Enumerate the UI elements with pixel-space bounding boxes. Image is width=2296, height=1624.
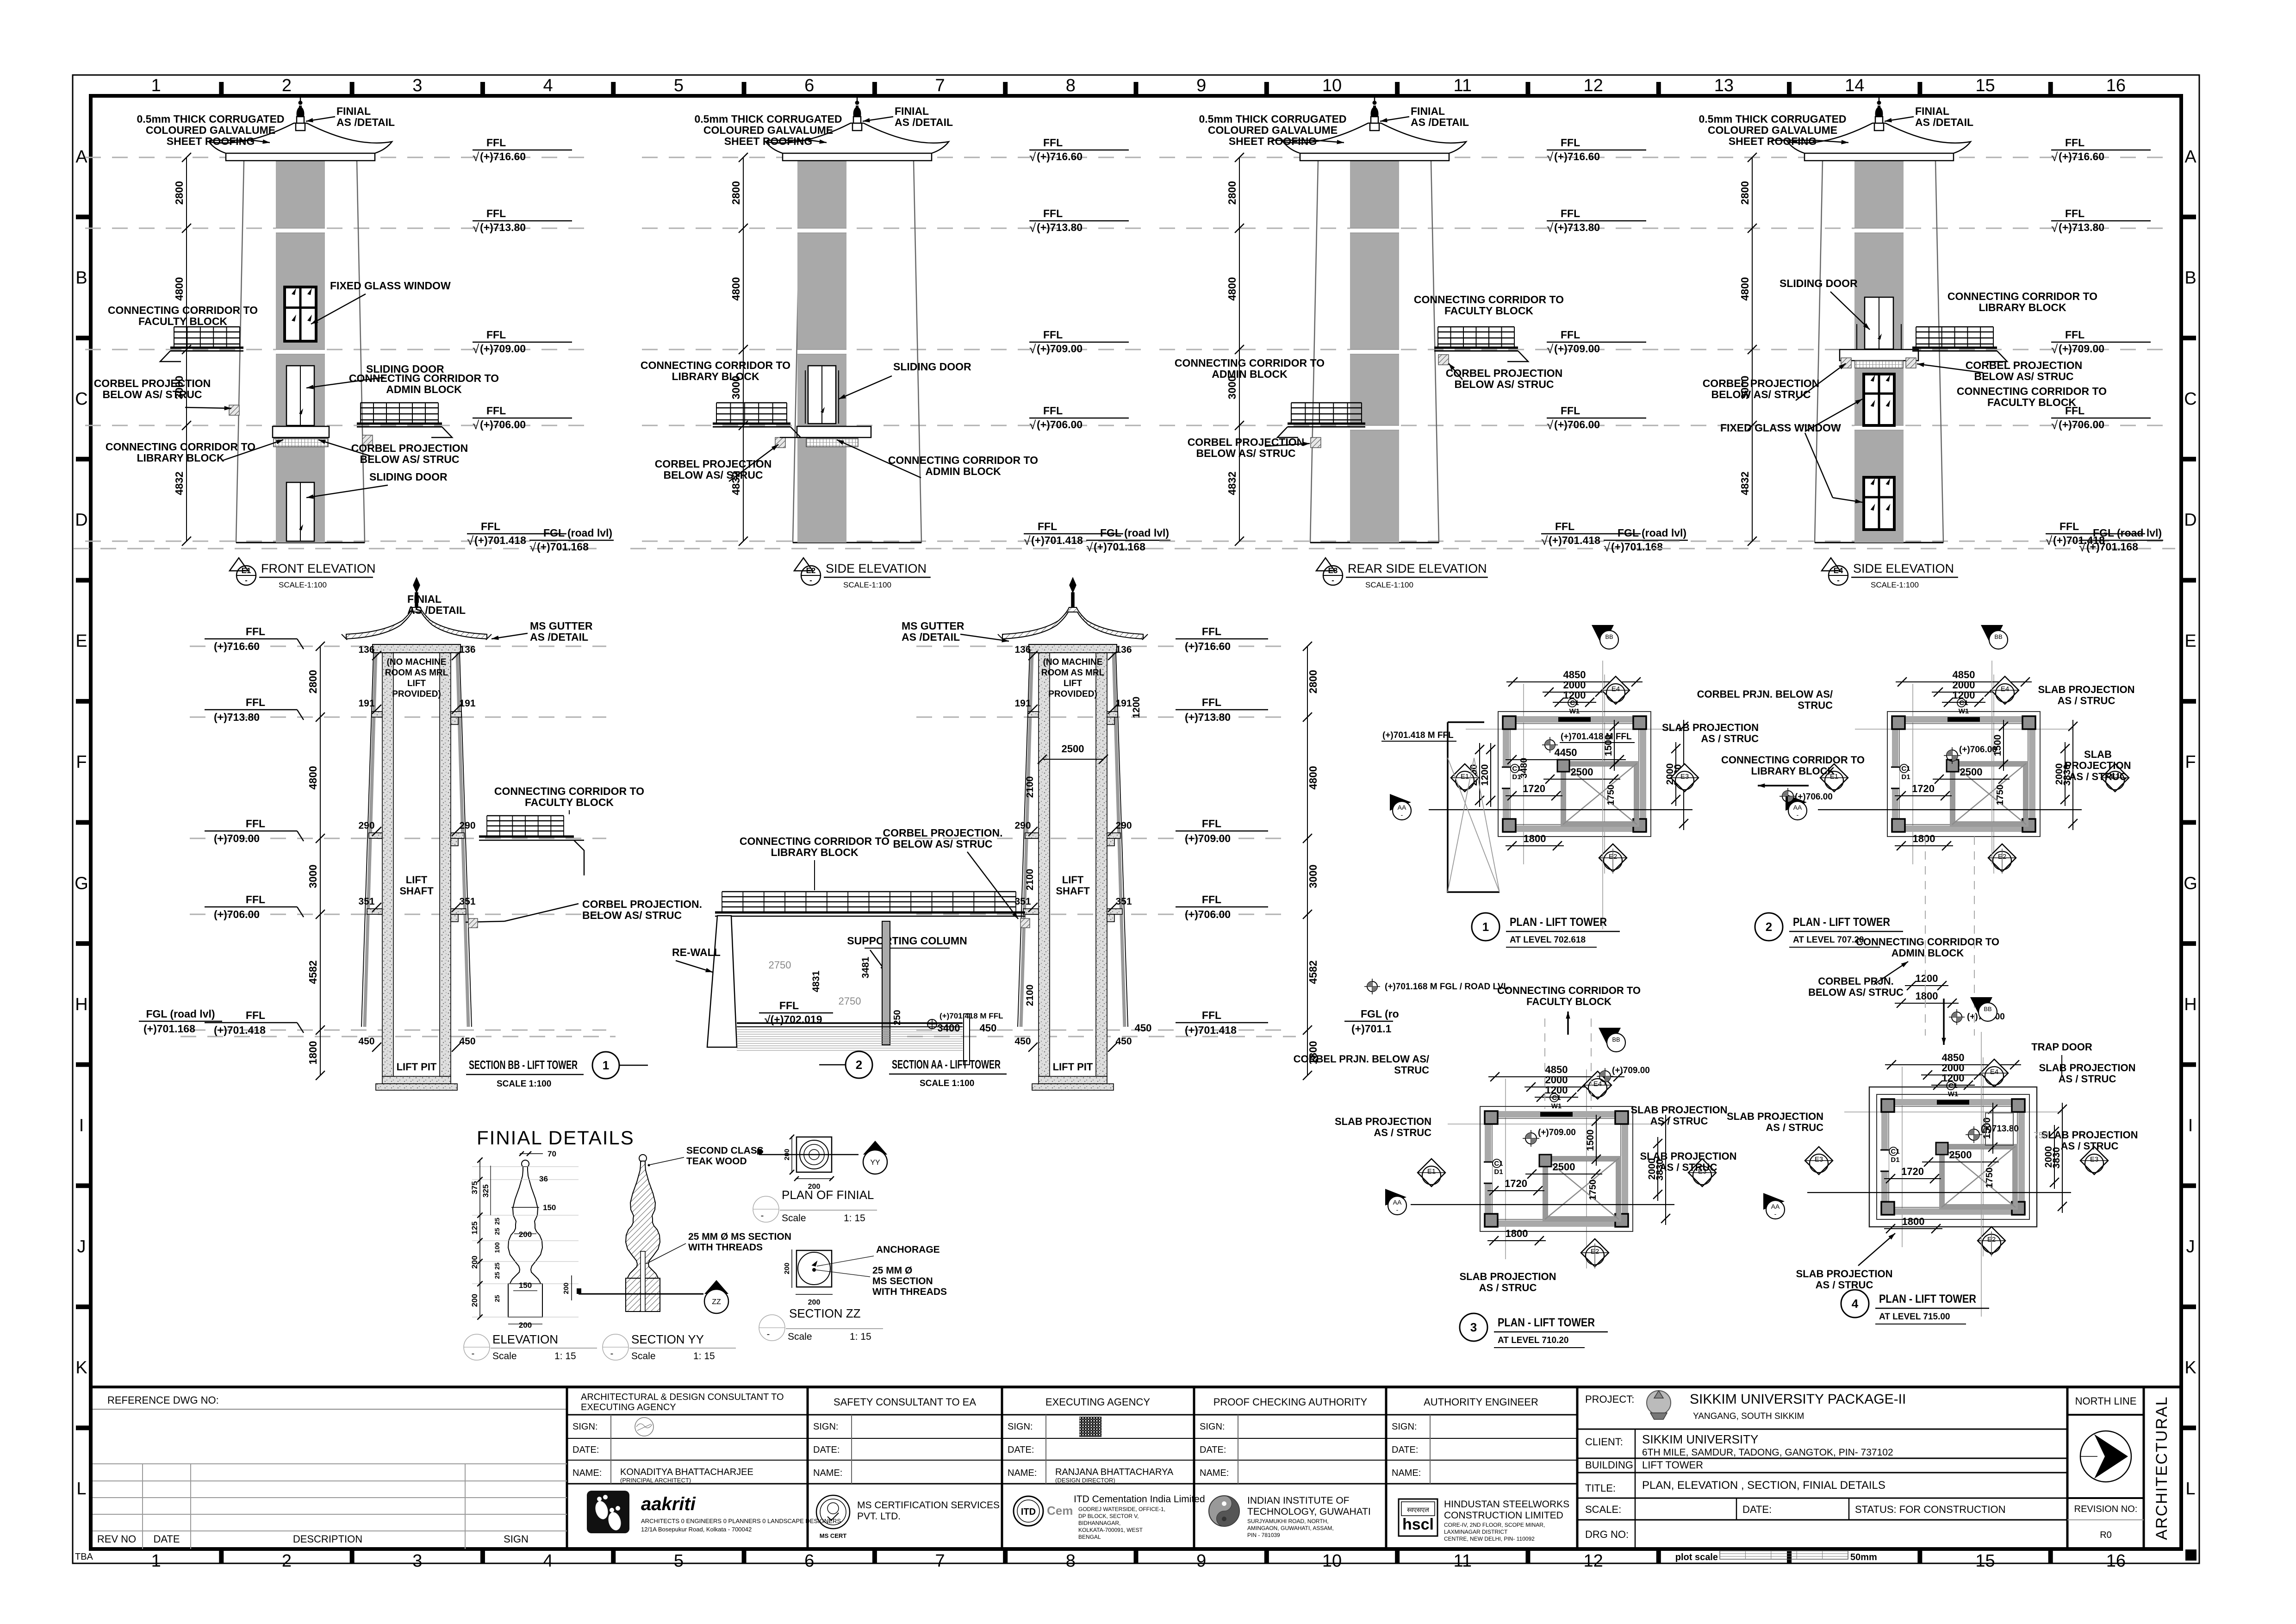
svg-text:CONNECTING CORRIDOR TO: CONNECTING CORRIDOR TO <box>1856 936 1999 948</box>
svg-text:Scale: Scale <box>788 1331 812 1342</box>
svg-text:plot scale: plot scale <box>1675 1552 1718 1562</box>
svg-text:(+)713.80: (+)713.80 <box>1037 221 1083 233</box>
svg-text:FFL: FFL <box>1561 137 1580 149</box>
svg-text:351: 351 <box>1115 896 1132 907</box>
svg-text:Scale: Scale <box>492 1351 517 1362</box>
svg-text:SLIDING DOOR: SLIDING DOOR <box>1780 277 1858 289</box>
svg-text:7: 7 <box>935 76 945 95</box>
svg-text:LIFT: LIFT <box>406 874 428 886</box>
svg-text:(+)706.00: (+)706.00 <box>1037 418 1083 431</box>
svg-text:√: √ <box>1604 540 1611 554</box>
svg-text:(+)701.418 M FFL: (+)701.418 M FFL <box>940 1012 1003 1020</box>
svg-text:(+)709.00: (+)709.00 <box>2059 343 2104 355</box>
svg-text:FINIAL DETAILS: FINIAL DETAILS <box>477 1127 635 1149</box>
svg-text:ANCHORAGE: ANCHORAGE <box>876 1244 940 1255</box>
svg-text:CONSTRUCTION LIMITED: CONSTRUCTION LIMITED <box>1444 1510 1563 1521</box>
svg-text:SECTION BB - LIFT TOWER: SECTION BB - LIFT TOWER <box>469 1058 578 1072</box>
svg-text:FFL: FFL <box>486 329 506 341</box>
svg-text:1800: 1800 <box>1902 1216 1925 1227</box>
svg-text:BELOW AS/ STRUC: BELOW AS/ STRUC <box>1808 987 1904 998</box>
svg-text:ROOM AS MRL: ROOM AS MRL <box>385 668 448 678</box>
svg-text:200: 200 <box>519 1321 532 1330</box>
svg-text:FFL: FFL <box>1043 329 1063 341</box>
svg-text:E3: E3 <box>1815 1156 1823 1163</box>
svg-text:70: 70 <box>548 1149 556 1158</box>
svg-text:LIBRARY BLOCK: LIBRARY BLOCK <box>1751 765 1835 777</box>
svg-text:CORBEL PRJN.: CORBEL PRJN. <box>1818 975 1893 987</box>
svg-text:SLAB PROJECTION: SLAB PROJECTION <box>1640 1150 1736 1162</box>
svg-text:√: √ <box>1029 418 1036 432</box>
svg-text:(+)701.168: (+)701.168 <box>1611 541 1663 553</box>
svg-text:(+)701.418: (+)701.418 <box>1185 1024 1237 1036</box>
svg-text:TBA: TBA <box>75 1552 93 1562</box>
svg-text:FFL: FFL <box>1561 207 1580 219</box>
svg-text:FFL: FFL <box>1202 696 1221 708</box>
svg-text:√: √ <box>1086 540 1093 554</box>
svg-text:AA: AA <box>1793 804 1802 811</box>
svg-text:AS /DETAIL: AS /DETAIL <box>1915 116 1973 128</box>
svg-text:C: C <box>2184 389 2196 409</box>
svg-text:1: 1 <box>151 1551 161 1571</box>
svg-text:STATUS: FOR CONSTRUCTION: STATUS: FOR CONSTRUCTION <box>1855 1504 2006 1515</box>
svg-text:E1: E1 <box>1427 1168 1436 1175</box>
svg-text:2800: 2800 <box>1226 181 1238 205</box>
svg-text:4582: 4582 <box>307 960 319 984</box>
svg-text:J: J <box>2186 1237 2195 1256</box>
svg-text:CORBEL PROJECTION.: CORBEL PROJECTION. <box>582 898 702 910</box>
svg-text:(+)709.00: (+)709.00 <box>214 832 260 844</box>
svg-text:36: 36 <box>539 1174 548 1183</box>
svg-text:SLAB PROJECTION: SLAB PROJECTION <box>1796 1268 1892 1280</box>
svg-text:CENTRE, NEW DELHI, PIN- 110092: CENTRE, NEW DELHI, PIN- 110092 <box>1444 1536 1535 1542</box>
svg-text:√: √ <box>473 418 479 432</box>
svg-text:1800: 1800 <box>1524 833 1546 844</box>
svg-text:1720: 1720 <box>1912 783 1935 794</box>
svg-text:NAME:: NAME: <box>572 1468 602 1478</box>
svg-text:14: 14 <box>1845 76 1864 95</box>
svg-text:2500: 2500 <box>1960 766 1983 778</box>
svg-text:ADMIN BLOCK: ADMIN BLOCK <box>925 465 1001 477</box>
svg-text:COLOURED GALVALUME: COLOURED GALVALUME <box>1208 124 1338 136</box>
svg-text:√: √ <box>1024 534 1031 548</box>
svg-text:(+)706.00: (+)706.00 <box>1795 792 1833 802</box>
svg-text:(DESIGN DIRECTOR): (DESIGN DIRECTOR) <box>1055 1477 1115 1484</box>
svg-text:J: J <box>77 1237 86 1256</box>
svg-text:LIBRARY BLOCK: LIBRARY BLOCK <box>771 846 859 858</box>
svg-text:√: √ <box>1541 534 1548 548</box>
svg-text:7: 7 <box>935 1551 945 1571</box>
svg-text:PLAN - LIFT TOWER: PLAN - LIFT TOWER <box>1879 1293 1976 1305</box>
svg-text:SCALE-1:100: SCALE-1:100 <box>1365 581 1413 589</box>
svg-text:PROVIDED): PROVIDED) <box>1048 689 1097 699</box>
svg-text:LIFT PIT: LIFT PIT <box>1053 1061 1093 1073</box>
svg-text:SLIDING DOOR: SLIDING DOOR <box>893 361 971 373</box>
svg-text:25: 25 <box>493 1272 501 1279</box>
svg-text:BELOW AS/ STRUC: BELOW AS/ STRUC <box>1974 370 2073 382</box>
svg-text:(+)701.418: (+)701.418 <box>474 534 526 546</box>
svg-text:SLAB PROJECTION: SLAB PROJECTION <box>1662 722 1759 733</box>
svg-text:ARCHITECTURAL: ARCHITECTURAL <box>2153 1396 2171 1540</box>
svg-text:3: 3 <box>1470 1320 1477 1334</box>
svg-text:TEAK WOOD: TEAK WOOD <box>686 1156 747 1167</box>
svg-text:1200: 1200 <box>1916 973 1938 984</box>
svg-text:(+)716.60: (+)716.60 <box>214 640 260 652</box>
svg-text:ZZ: ZZ <box>712 1298 721 1306</box>
svg-text:ITD Cementation India Limited: ITD Cementation India Limited <box>1074 1494 1205 1505</box>
svg-text:B: B <box>2184 268 2196 287</box>
svg-text:CONNECTING CORRIDOR TO: CONNECTING CORRIDOR TO <box>888 454 1038 466</box>
svg-text:LIBRARY BLOCK: LIBRARY BLOCK <box>672 370 759 382</box>
svg-text:AS / STRUC: AS / STRUC <box>1701 733 1759 744</box>
svg-text:AS / STRUC: AS / STRUC <box>1816 1279 1873 1291</box>
svg-text:E4: E4 <box>2001 685 2009 693</box>
svg-text:(+)701.168: (+)701.168 <box>1094 541 1145 553</box>
svg-text:5: 5 <box>674 76 684 95</box>
svg-text:E4: E4 <box>1990 1068 1998 1076</box>
svg-text:AS / STRUC: AS / STRUC <box>2069 771 2127 782</box>
svg-text:SHEET ROOFING: SHEET ROOFING <box>1229 135 1317 147</box>
svg-text:450: 450 <box>358 1036 374 1047</box>
svg-text:1200: 1200 <box>1545 1084 1568 1096</box>
svg-text:450: 450 <box>980 1022 997 1034</box>
svg-text:√: √ <box>2051 221 2058 235</box>
svg-text:MS CERT: MS CERT <box>820 1532 847 1539</box>
svg-text:G: G <box>75 874 88 893</box>
svg-text:AS / STRUC: AS / STRUC <box>1479 1282 1537 1293</box>
svg-text:LIBRARY BLOCK: LIBRARY BLOCK <box>1979 301 2066 313</box>
svg-text:AA: AA <box>1398 804 1406 811</box>
svg-text:SCALE-1:100: SCALE-1:100 <box>1871 581 1919 589</box>
svg-text:AT LEVEL 707.20: AT LEVEL 707.20 <box>1793 935 1864 945</box>
svg-text:3000: 3000 <box>307 864 319 888</box>
svg-text:1: 1 <box>603 1058 609 1072</box>
svg-text:AT LEVEL 710.20: AT LEVEL 710.20 <box>1498 1336 1568 1345</box>
svg-text:FACULTY BLOCK: FACULTY BLOCK <box>1526 996 1612 1007</box>
svg-text:(+)706.00: (+)706.00 <box>480 418 526 431</box>
svg-text:BENGAL: BENGAL <box>1078 1534 1101 1540</box>
svg-text:AS / STRUC: AS / STRUC <box>1660 1162 1717 1173</box>
svg-text:4450: 4450 <box>1555 747 1577 758</box>
svg-text:2500: 2500 <box>1949 1149 1972 1161</box>
svg-text:SECTION ZZ: SECTION ZZ <box>789 1306 861 1320</box>
svg-text:AS /DETAIL: AS /DETAIL <box>530 631 588 643</box>
svg-text:G: G <box>2184 874 2197 893</box>
svg-text:4832: 4832 <box>1226 471 1238 495</box>
svg-text:DRG NO:: DRG NO: <box>1585 1529 1629 1540</box>
svg-text:C1: C1 <box>1891 1148 1899 1156</box>
svg-text:FGL (road lvl): FGL (road lvl) <box>1100 527 1169 539</box>
svg-text:√: √ <box>467 534 474 548</box>
svg-text:2750: 2750 <box>769 959 791 971</box>
svg-text:(+)709.00: (+)709.00 <box>1185 832 1231 844</box>
svg-text:√: √ <box>2051 418 2058 432</box>
svg-text:FFL: FFL <box>246 696 265 708</box>
svg-text:(NO MACHINE: (NO MACHINE <box>1043 657 1103 667</box>
svg-text:AA: AA <box>1393 1199 1402 1206</box>
svg-text:200: 200 <box>808 1299 821 1306</box>
svg-text:16: 16 <box>2106 76 2126 95</box>
svg-text:-: - <box>809 576 812 585</box>
svg-text:191: 191 <box>1014 698 1031 709</box>
svg-text:CORBEL PROJECTION: CORBEL PROJECTION <box>655 458 772 470</box>
svg-text:2800: 2800 <box>173 181 185 205</box>
svg-text:(+)716.60: (+)716.60 <box>1554 150 1600 162</box>
svg-text:AT LEVEL 715.00: AT LEVEL 715.00 <box>1879 1312 1950 1322</box>
svg-text:FFL: FFL <box>481 520 500 532</box>
svg-text:√(+)702.019: √(+)702.019 <box>765 1013 822 1025</box>
svg-text:TRAP DOOR: TRAP DOOR <box>2031 1041 2092 1053</box>
svg-text:BB: BB <box>1612 1036 1620 1043</box>
svg-text:CONNECTING CORRIDOR TO: CONNECTING CORRIDOR TO <box>1948 290 2097 302</box>
svg-text:CONNECTING CORRIDOR TO: CONNECTING CORRIDOR TO <box>641 359 790 371</box>
svg-text:Cem: Cem <box>1047 1504 1073 1518</box>
svg-text:150: 150 <box>543 1203 556 1212</box>
svg-text:FGL (road lvl): FGL (road lvl) <box>146 1008 215 1020</box>
svg-text:2100: 2100 <box>1025 776 1035 798</box>
svg-text:1200: 1200 <box>1942 1072 1965 1084</box>
svg-text:ADMIN BLOCK: ADMIN BLOCK <box>386 383 462 395</box>
svg-text:STRUC: STRUC <box>1394 1064 1429 1076</box>
svg-text:(+)701.168: (+)701.168 <box>537 541 589 553</box>
svg-text:9: 9 <box>1196 1551 1206 1571</box>
svg-text:STRUC: STRUC <box>1798 700 1833 711</box>
svg-text:hscl: hscl <box>1402 1516 1434 1533</box>
svg-text:(+)716.60: (+)716.60 <box>480 150 526 162</box>
svg-text:FFL: FFL <box>1555 520 1574 532</box>
svg-text:SHAFT: SHAFT <box>399 885 434 897</box>
svg-text:E3: E3 <box>1328 566 1338 575</box>
svg-text:CONNECTING CORRIDOR TO: CONNECTING CORRIDOR TO <box>1414 294 1564 306</box>
svg-text:C1: C1 <box>1494 1160 1503 1168</box>
svg-text:I: I <box>79 1116 84 1135</box>
svg-text:√: √ <box>2051 342 2058 356</box>
svg-text:DATE:: DATE: <box>1742 1504 1772 1515</box>
svg-text:PLAN - LIFT TOWER: PLAN - LIFT TOWER <box>1793 916 1890 929</box>
svg-text:PLAN, ELEVATION , SECTION, FIN: PLAN, ELEVATION , SECTION, FINIAL DETAIL… <box>1642 1479 1885 1492</box>
svg-text:√: √ <box>1029 150 1036 164</box>
svg-text:PLAN - LIFT TOWER: PLAN - LIFT TOWER <box>1510 916 1607 929</box>
svg-text:2800: 2800 <box>1307 670 1319 693</box>
svg-text:125: 125 <box>470 1221 479 1234</box>
svg-text:SCALE 1:100: SCALE 1:100 <box>920 1079 974 1088</box>
svg-text:11: 11 <box>1454 76 1472 95</box>
svg-text:1750: 1750 <box>1995 785 2005 806</box>
svg-text:-: - <box>767 1329 770 1339</box>
svg-text:BELOW AS/ STRUC: BELOW AS/ STRUC <box>1454 378 1554 390</box>
svg-text:3: 3 <box>412 76 422 95</box>
svg-text:F: F <box>76 753 87 772</box>
svg-text:SIGN:: SIGN: <box>813 1422 838 1432</box>
svg-text:K: K <box>75 1358 87 1378</box>
svg-text:DATE:: DATE: <box>572 1445 599 1455</box>
svg-text:E4: E4 <box>1834 566 1843 575</box>
svg-text:SIKKIM UNIVERSITY PACKAGE-II: SIKKIM UNIVERSITY PACKAGE-II <box>1690 1392 1906 1407</box>
svg-text:FIXED GLASS WINDOW: FIXED GLASS WINDOW <box>1720 422 1841 434</box>
svg-text:CONNECTING CORRIDOR TO: CONNECTING CORRIDOR TO <box>106 441 255 453</box>
svg-text:PIN - 781039: PIN - 781039 <box>1247 1532 1280 1538</box>
svg-text:W1: W1 <box>1959 707 1969 715</box>
svg-text:(+)706.00: (+)706.00 <box>214 908 260 920</box>
svg-text:ARCHITECTURAL & DESIGN CONSULT: ARCHITECTURAL & DESIGN CONSULTANT TO <box>581 1392 784 1402</box>
svg-text:SLAB: SLAB <box>2084 749 2112 760</box>
svg-text:CORBEL PROJECTION: CORBEL PROJECTION <box>351 442 468 454</box>
svg-text:FACULTY BLOCK: FACULTY BLOCK <box>1987 396 2076 408</box>
svg-text:12: 12 <box>1583 1551 1603 1571</box>
svg-text:12/1A Bosepukur Road, Kolkata: 12/1A Bosepukur Road, Kolkata - 700042 <box>641 1526 752 1533</box>
svg-text:FGL (road lvl): FGL (road lvl) <box>1618 527 1686 539</box>
svg-text:1750: 1750 <box>1588 1180 1598 1200</box>
svg-text:Scale: Scale <box>782 1213 806 1224</box>
svg-text:NAME:: NAME: <box>1008 1468 1037 1478</box>
svg-text:-: - <box>1797 811 1799 818</box>
svg-text:CONNECTING CORRIDOR TO: CONNECTING CORRIDOR TO <box>349 372 499 384</box>
svg-text:FFL: FFL <box>1038 520 1057 532</box>
svg-text:FFL: FFL <box>1202 818 1221 830</box>
svg-text:290: 290 <box>459 820 475 831</box>
svg-text:2800: 2800 <box>1739 181 1751 205</box>
svg-text:136: 136 <box>1014 644 1031 655</box>
svg-text:10: 10 <box>1322 1551 1342 1571</box>
svg-text:AS / STRUC: AS / STRUC <box>1766 1122 1823 1133</box>
svg-text:√: √ <box>1547 221 1554 235</box>
svg-text:D: D <box>2184 511 2196 530</box>
svg-text:DATE:: DATE: <box>1200 1445 1226 1455</box>
svg-text:I: I <box>2188 1116 2193 1135</box>
svg-text:11: 11 <box>1454 1551 1472 1571</box>
svg-text:CORBEL PROJECTION: CORBEL PROJECTION <box>94 377 211 389</box>
svg-text:1750: 1750 <box>1606 785 1616 806</box>
svg-text:1800: 1800 <box>1506 1228 1528 1239</box>
svg-text:R0: R0 <box>2100 1530 2112 1540</box>
svg-text:450: 450 <box>459 1036 475 1047</box>
svg-text:FFL: FFL <box>246 1009 265 1021</box>
svg-text:PLAN OF FINIAL: PLAN OF FINIAL <box>782 1188 874 1202</box>
svg-text:(+)713.80: (+)713.80 <box>1185 711 1231 723</box>
svg-text:(+)706.00: (+)706.00 <box>1959 745 1997 755</box>
svg-text:D1: D1 <box>1901 773 1910 781</box>
svg-text:4582: 4582 <box>1307 960 1319 984</box>
svg-text:FFL: FFL <box>2060 520 2079 532</box>
svg-text:√: √ <box>529 540 536 554</box>
svg-text:H: H <box>75 995 87 1014</box>
svg-text:FGL (road lvl): FGL (road lvl) <box>543 527 612 539</box>
svg-text:4800: 4800 <box>1307 766 1319 789</box>
svg-text:2800: 2800 <box>730 181 742 205</box>
svg-text:2: 2 <box>282 76 292 95</box>
svg-text:FRONT ELEVATION: FRONT ELEVATION <box>261 562 376 575</box>
svg-text:SLIDING DOOR: SLIDING DOOR <box>369 471 448 483</box>
svg-text:CORBEL PROJECTION: CORBEL PROJECTION <box>1188 436 1305 448</box>
svg-text:REAR SIDE ELEVATION: REAR SIDE ELEVATION <box>1348 562 1487 575</box>
svg-text:SLAB PROJECTION: SLAB PROJECTION <box>1459 1271 1556 1282</box>
svg-text:0.5mm THICK CORRUGATED: 0.5mm THICK CORRUGATED <box>137 113 284 125</box>
svg-text:750: 750 <box>2034 1131 2048 1141</box>
svg-text:LIFT: LIFT <box>407 679 426 688</box>
svg-text:E: E <box>75 631 87 651</box>
svg-text:REFERENCE DWG NO:: REFERENCE DWG NO: <box>107 1394 219 1406</box>
svg-text:SIGN:: SIGN: <box>1008 1422 1033 1432</box>
svg-text:SLAB PROJECTION: SLAB PROJECTION <box>1727 1111 1823 1122</box>
svg-text:-: - <box>761 1211 764 1221</box>
svg-text:SLAB PROJECTION: SLAB PROJECTION <box>2039 1062 2135 1074</box>
svg-text:FINIAL: FINIAL <box>407 593 442 605</box>
svg-text:(+)709.00: (+)709.00 <box>1538 1128 1576 1137</box>
svg-text:E3: E3 <box>1680 773 1689 781</box>
svg-text:1800: 1800 <box>307 1041 319 1064</box>
svg-text:1200: 1200 <box>1953 689 1975 701</box>
svg-text:1200: 1200 <box>1563 689 1586 701</box>
svg-text:NAME:: NAME: <box>813 1468 842 1478</box>
svg-text:450: 450 <box>1115 1036 1132 1047</box>
svg-text:4: 4 <box>543 76 553 95</box>
svg-text:1: 1 <box>1482 920 1489 934</box>
svg-text:191: 191 <box>1115 698 1132 709</box>
svg-text:-: - <box>245 576 248 585</box>
svg-text:B: B <box>75 268 87 287</box>
svg-text:SECTION AA - LIFT TOWER: SECTION AA - LIFT TOWER <box>892 1057 1001 1071</box>
svg-text:SECTION YY: SECTION YY <box>631 1332 704 1346</box>
svg-text:NAME:: NAME: <box>1392 1468 1421 1478</box>
svg-text:(+)706.00: (+)706.00 <box>1185 908 1231 920</box>
svg-text:CONNECTING CORRIDOR TO: CONNECTING CORRIDOR TO <box>1721 754 1865 766</box>
svg-text:(+)713.80: (+)713.80 <box>480 221 526 233</box>
svg-text:1720: 1720 <box>1523 783 1545 794</box>
svg-text:DATE: DATE <box>153 1533 180 1545</box>
svg-text:L: L <box>76 1479 86 1499</box>
svg-text:4831: 4831 <box>811 970 821 992</box>
svg-text:TITLE:: TITLE: <box>1585 1482 1616 1494</box>
svg-text:F: F <box>2185 753 2196 772</box>
svg-text:2: 2 <box>282 1551 292 1571</box>
svg-text:8: 8 <box>1066 1551 1076 1571</box>
svg-text:-: - <box>1774 1210 1777 1218</box>
svg-text:FACULTY BLOCK: FACULTY BLOCK <box>1444 305 1533 317</box>
svg-text:SCALE-1:100: SCALE-1:100 <box>843 581 891 589</box>
svg-text:BELOW AS/ STRUC: BELOW AS/ STRUC <box>582 909 682 921</box>
svg-text:PROVIDED): PROVIDED) <box>392 689 441 699</box>
svg-text:SIKKIM UNIVERSITY: SIKKIM UNIVERSITY <box>1642 1432 1758 1446</box>
svg-text:ITD: ITD <box>1021 1507 1036 1517</box>
svg-text:FFL: FFL <box>1561 405 1580 417</box>
svg-text:BELOW AS/ STRUC: BELOW AS/ STRUC <box>102 388 202 400</box>
svg-text:0.5mm THICK CORRUGATED: 0.5mm THICK CORRUGATED <box>694 113 842 125</box>
svg-text:-: - <box>1837 576 1840 585</box>
svg-text:1: 15: 1: 15 <box>693 1351 715 1362</box>
svg-text:AS / STRUC: AS / STRUC <box>1374 1127 1431 1138</box>
svg-text:FFL: FFL <box>246 625 265 637</box>
svg-text:2000: 2000 <box>2054 763 2065 785</box>
svg-text:FFL: FFL <box>486 207 506 219</box>
svg-text:CORBEL PRJN. BELOW AS/: CORBEL PRJN. BELOW AS/ <box>1697 688 1833 700</box>
svg-text:4: 4 <box>543 1551 553 1571</box>
svg-text:SIGN:: SIGN: <box>1200 1422 1225 1432</box>
svg-text:LIFT: LIFT <box>1062 874 1084 886</box>
svg-text:0.5mm THICK CORRUGATED: 0.5mm THICK CORRUGATED <box>1199 113 1346 125</box>
svg-text:AS /DETAIL: AS /DETAIL <box>407 604 466 616</box>
svg-text:1800: 1800 <box>1916 990 1938 1002</box>
svg-text:√: √ <box>1547 342 1554 356</box>
svg-text:D1: D1 <box>1494 1168 1503 1176</box>
svg-text:DATE:: DATE: <box>1008 1445 1034 1455</box>
svg-text:200: 200 <box>562 1282 570 1294</box>
svg-text:25: 25 <box>493 1262 501 1270</box>
svg-text:PVT. LTD.: PVT. LTD. <box>857 1511 901 1522</box>
svg-text:(+)716.60: (+)716.60 <box>2059 150 2104 162</box>
svg-text:FGL (road lvl): FGL (road lvl) <box>2093 527 2162 539</box>
svg-text:16: 16 <box>2106 1551 2126 1571</box>
svg-text:REVISION NO:: REVISION NO: <box>2074 1504 2138 1514</box>
svg-text:0.5mm THICK CORRUGATED: 0.5mm THICK CORRUGATED <box>1699 113 1846 125</box>
